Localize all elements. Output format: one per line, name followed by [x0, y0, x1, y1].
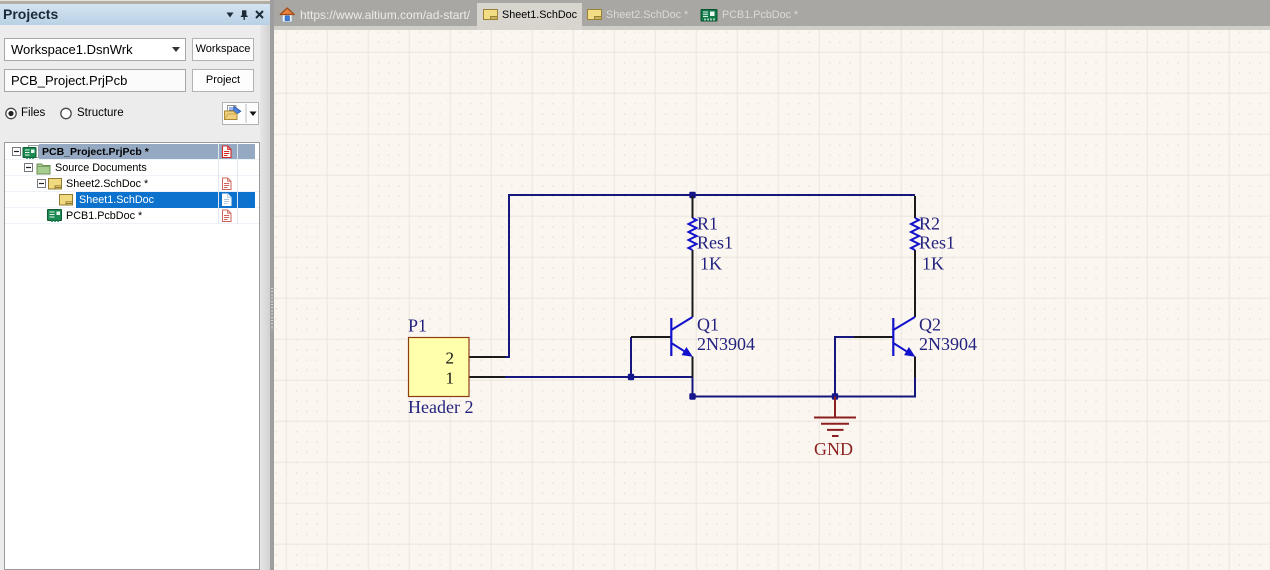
svg-text:2N3904: 2N3904: [697, 334, 755, 354]
svg-text:P1: P1: [408, 316, 427, 336]
svg-text:2: 2: [446, 349, 455, 368]
svg-text:1K: 1K: [700, 254, 722, 274]
svg-text:R2: R2: [919, 214, 940, 234]
svg-text:Res1: Res1: [919, 233, 955, 253]
svg-text:1K: 1K: [922, 254, 944, 274]
svg-text:R1: R1: [697, 214, 718, 234]
svg-text:GND: GND: [814, 439, 853, 459]
svg-text:Header 2: Header 2: [408, 397, 473, 417]
svg-text:Res1: Res1: [697, 233, 733, 253]
svg-text:1: 1: [446, 369, 455, 388]
svg-text:2N3904: 2N3904: [919, 334, 977, 354]
svg-text:Q1: Q1: [697, 315, 719, 335]
svg-text:Q2: Q2: [919, 315, 941, 335]
